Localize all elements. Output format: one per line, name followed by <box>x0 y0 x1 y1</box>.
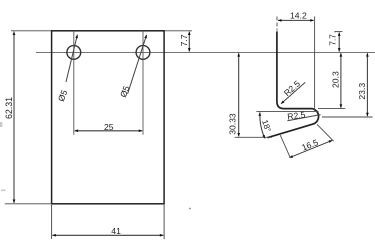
svg-text:7.7: 7.7 <box>329 34 338 46</box>
dimension 7.7 (side view, top to hole centerline) <box>338 32 340 51</box>
dimension 25 (hole spacing) <box>75 130 143 132</box>
hole H1 (left, diam 5) <box>67 46 81 60</box>
wire: right extension line for 14.2 <box>314 17 316 112</box>
svg-text:41: 41 <box>111 226 121 236</box>
stray speck near 7.7 label <box>334 31 335 32</box>
wire: underline leader for hem R2.5 <box>287 115 320 121</box>
wire: horizontal centerline through holes projected to side view <box>36 51 375 53</box>
wire: left extension line for 14.2 <box>276 17 278 31</box>
wire: vertical axis / extension line through hole H2 <box>142 31 144 135</box>
svg-text:23.3: 23.3 <box>357 83 367 100</box>
hole H2 (right, diam 5) <box>136 46 150 60</box>
dimension 20.3 (centerline to bottom flange) <box>340 53 342 108</box>
dimension 14.2 (top of side view) <box>278 19 314 21</box>
svg-text:7.7: 7.7 <box>179 34 189 46</box>
stray mark (scan noise, bottom centre) <box>189 208 191 210</box>
svg-text:20.3: 20.3 <box>331 71 341 88</box>
side view profile: hem / 180 deg hook with tail at 18 deg <box>267 109 318 138</box>
wire: right extension line for 41 <box>163 205 165 239</box>
svg-text:62.31: 62.31 <box>4 97 14 119</box>
side view profile: vertical web <box>277 31 312 108</box>
stray mark (scan noise, left edge) <box>1 190 6 192</box>
svg-text:30.33: 30.33 <box>228 113 238 135</box>
wire: extension line at hook tangent for 16.5 <box>317 124 334 141</box>
dimension 23.3 (centerline to hook bottom) <box>366 53 368 116</box>
node A: front view plate outline 41 x 62.31 <box>52 31 165 204</box>
dimension 62.31 (front view height) <box>13 32 15 203</box>
svg-text:16.5: 16.5 <box>300 137 319 153</box>
wire: vertical axis / extension line through hole H1 <box>73 31 75 135</box>
dimension 16.5 (tail length) <box>289 140 332 157</box>
svg-text:25: 25 <box>104 122 114 132</box>
wire: top edge extension line (front view) <box>11 30 192 32</box>
dimension 30.33 (centerline to tail end) <box>238 53 240 136</box>
wire: extension line for 23.3 at hook tangent <box>322 116 373 118</box>
svg-text:R2.5: R2.5 <box>282 78 302 98</box>
wire: horizontal reference line for 18 deg angle <box>256 110 318 112</box>
wire: left extension line for 41 <box>51 205 53 239</box>
wire: bottom extension line for 30.33 <box>235 136 272 138</box>
dimension 7.7 (front view, top edge to hole centerline) <box>188 32 190 52</box>
svg-text:Ø5: Ø5 <box>56 88 70 103</box>
svg-text:14.2: 14.2 <box>290 10 307 20</box>
leader for hole H1 label <box>66 35 77 82</box>
dimension 41 (front view width) <box>52 234 163 236</box>
leader for hole H2 label <box>128 35 147 94</box>
wire: bottom extension line for 62.31 <box>5 203 52 205</box>
angular dimension 18 deg arc <box>260 112 265 138</box>
wire: short top extension tick for 7.7 <box>335 31 343 33</box>
wire: extension line at tail end for 16.5 <box>280 135 290 157</box>
stray mark (scan noise, left edge mid) <box>0 122 2 127</box>
radius leader R2.5 (bottom bend fillet) <box>281 82 305 103</box>
wire: extension line for 20.3 at bottom flange <box>318 108 345 110</box>
